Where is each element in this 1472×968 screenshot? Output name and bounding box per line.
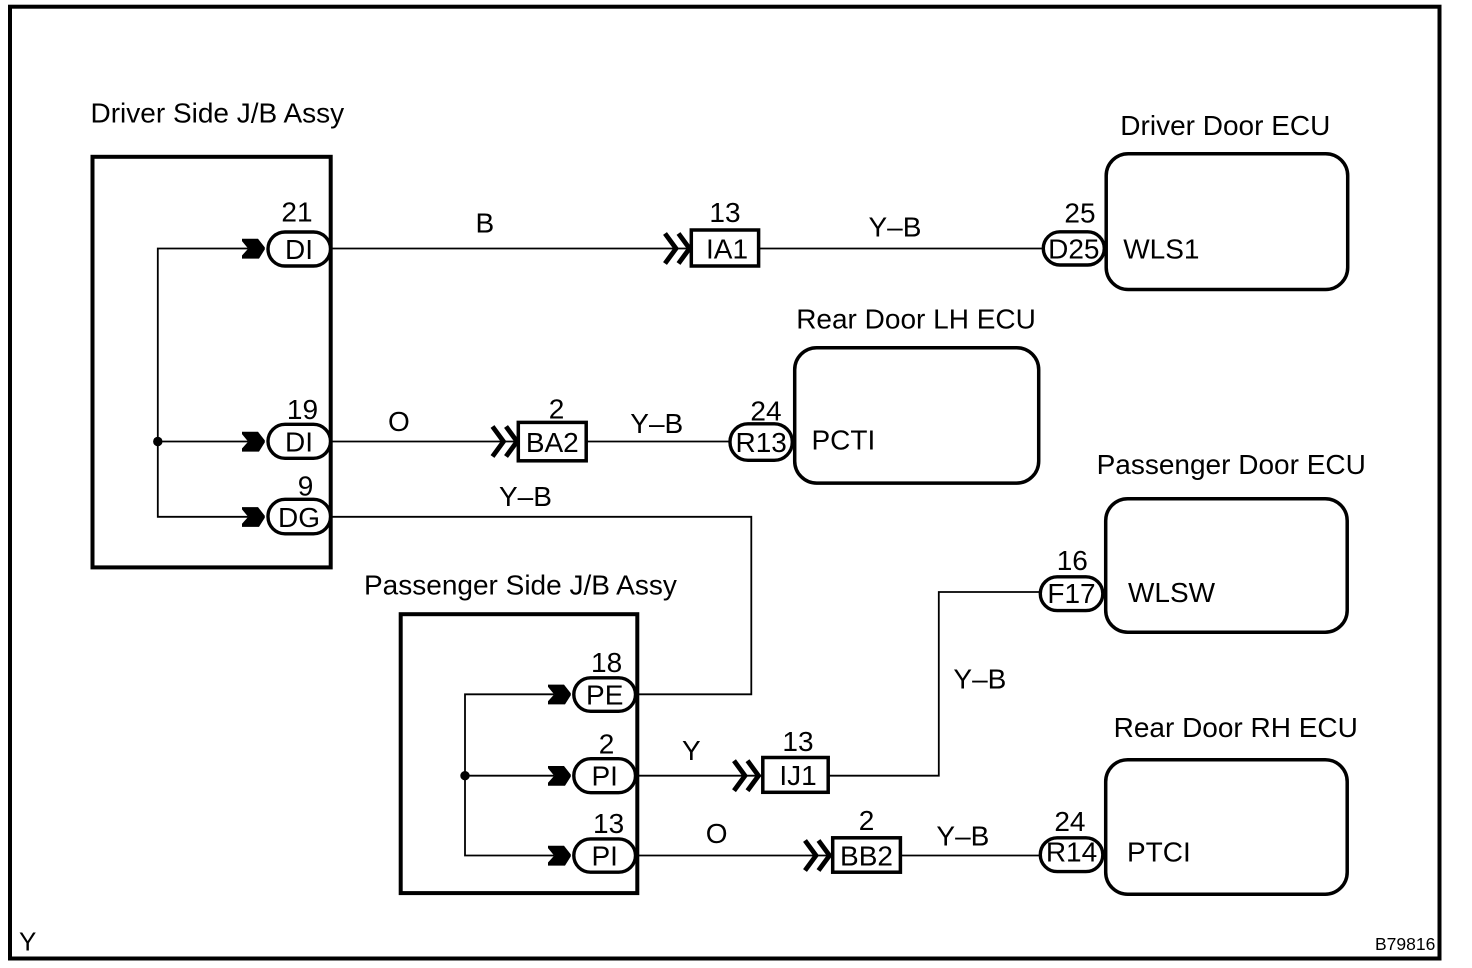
svg-text:Rear Door RH ECU: Rear Door RH ECU: [1114, 712, 1358, 743]
svg-text:2: 2: [859, 805, 875, 836]
svg-text:B79816: B79816: [1375, 934, 1435, 954]
ECU U3: Passenger Door ECU: [1106, 499, 1348, 633]
svg-text:IA1: IA1: [706, 234, 748, 265]
splice IJ1 pin 13: [763, 758, 828, 793]
wire passenger J/B internal bus: [465, 694, 554, 855]
chevrons before BA2: [493, 427, 504, 457]
svg-text:18: 18: [591, 647, 622, 678]
wire DG to PE, label Y-B: [330, 517, 751, 695]
chevrons before IJ1: [734, 761, 745, 791]
svg-text:16: 16: [1057, 545, 1088, 576]
arrow into PI(13): [548, 846, 571, 866]
svg-text:Passenger Door ECU: Passenger Door ECU: [1097, 449, 1366, 480]
svg-text:13: 13: [782, 726, 813, 757]
svg-text:PCTI: PCTI: [812, 425, 876, 456]
svg-text:9: 9: [298, 471, 314, 502]
wire BA2 to R13, label Y-B: [586, 441, 731, 443]
svg-text:Y: Y: [19, 927, 36, 957]
arrow into PI(2): [548, 766, 571, 786]
wire PI(13) to BB2, label O: [636, 855, 833, 857]
svg-text:DI: DI: [285, 234, 313, 265]
svg-text:13: 13: [593, 808, 624, 839]
chevrons before IA1: [665, 234, 676, 264]
wire DI19 to BA2, label O: [330, 441, 518, 443]
splice BB2 pin 2: [833, 838, 901, 872]
splice BA2 pin 2: [518, 422, 586, 460]
svg-text:PI: PI: [591, 841, 617, 872]
svg-text:Driver Side J/B Assy: Driver Side J/B Assy: [91, 98, 345, 129]
svg-text:2: 2: [549, 394, 565, 425]
svg-text:WLSW: WLSW: [1128, 577, 1216, 608]
connector PI pin 13: [574, 839, 636, 872]
svg-text:Y–B: Y–B: [869, 212, 922, 243]
connector R14 pin 24: [1040, 838, 1103, 872]
ECU U2: Rear Door LH ECU: [795, 348, 1039, 483]
svg-text:24: 24: [1054, 806, 1085, 837]
svg-text:F17: F17: [1047, 578, 1095, 609]
junction block: Passenger Side J/B Assy: [401, 614, 638, 893]
connector F17 pin 16: [1040, 577, 1103, 611]
wire driver bus to DI19: [158, 441, 248, 443]
arrow into DI19: [242, 432, 265, 452]
wire IA1 to D25, label Y-B: [759, 248, 1044, 250]
connector PI pin 2: [574, 759, 636, 793]
wire passenger bus to PI(2): [465, 775, 554, 777]
svg-text:DG: DG: [278, 502, 320, 533]
svg-text:19: 19: [287, 394, 318, 425]
svg-text:21: 21: [281, 197, 312, 228]
wire BB2 to R14, label Y-B: [900, 855, 1041, 857]
svg-text:PE: PE: [586, 680, 623, 711]
svg-text:Y–B: Y–B: [630, 408, 683, 439]
connector DG pin 9: [268, 499, 331, 534]
svg-text:Y–B: Y–B: [499, 481, 552, 512]
svg-text:Passenger Side J/B Assy: Passenger Side J/B Assy: [364, 570, 677, 601]
svg-text:BB2: BB2: [840, 841, 893, 872]
ECU U4: Rear Door RH ECU: [1106, 760, 1348, 895]
connector PE pin 18: [574, 678, 636, 712]
arrow into PE: [548, 685, 571, 705]
arrow into DG: [242, 507, 265, 527]
svg-text:Y–B: Y–B: [953, 664, 1006, 695]
junction dot passenger bus: [460, 771, 469, 780]
svg-text:O: O: [706, 818, 728, 849]
wire driver J/B internal bus: [158, 249, 248, 517]
svg-text:PI: PI: [591, 761, 617, 792]
connector D25 pin 25: [1043, 232, 1104, 265]
junction dot driver bus: [153, 437, 162, 446]
svg-text:Driver Door ECU: Driver Door ECU: [1120, 110, 1330, 141]
wire IJ1 to F17 via corner, label Y-B: [827, 592, 1041, 776]
svg-text:24: 24: [750, 396, 781, 427]
svg-text:D25: D25: [1048, 234, 1099, 265]
svg-text:PTCI: PTCI: [1127, 837, 1191, 868]
arrow into DI21: [242, 239, 265, 259]
svg-text:WLS1: WLS1: [1123, 234, 1199, 265]
svg-text:Y–B: Y–B: [936, 820, 989, 851]
wire DI21 to IA1, label B: [330, 248, 691, 250]
svg-text:Y: Y: [682, 735, 701, 766]
svg-text:R13: R13: [736, 427, 787, 458]
svg-text:IJ1: IJ1: [779, 760, 816, 791]
svg-text:BA2: BA2: [526, 427, 579, 458]
svg-text:Rear Door LH ECU: Rear Door LH ECU: [796, 303, 1036, 334]
splice IA1 pin 13: [691, 230, 758, 266]
svg-text:13: 13: [709, 197, 740, 228]
connector DI pin 21: [268, 232, 331, 266]
svg-text:DI: DI: [285, 427, 313, 458]
ECU U1: Driver Door ECU: [1106, 154, 1348, 290]
svg-text:2: 2: [599, 729, 615, 760]
chevrons before BB2: [805, 841, 816, 871]
svg-text:O: O: [388, 406, 410, 437]
connector R13 pin 24: [730, 424, 792, 461]
svg-text:R14: R14: [1046, 837, 1097, 868]
connector DI pin 19: [268, 424, 331, 458]
junction block: Driver Side J/B Assy: [93, 157, 331, 568]
svg-text:25: 25: [1064, 197, 1095, 228]
svg-text:B: B: [476, 208, 495, 239]
wire PI(2) to IJ1, label Y: [636, 775, 763, 777]
